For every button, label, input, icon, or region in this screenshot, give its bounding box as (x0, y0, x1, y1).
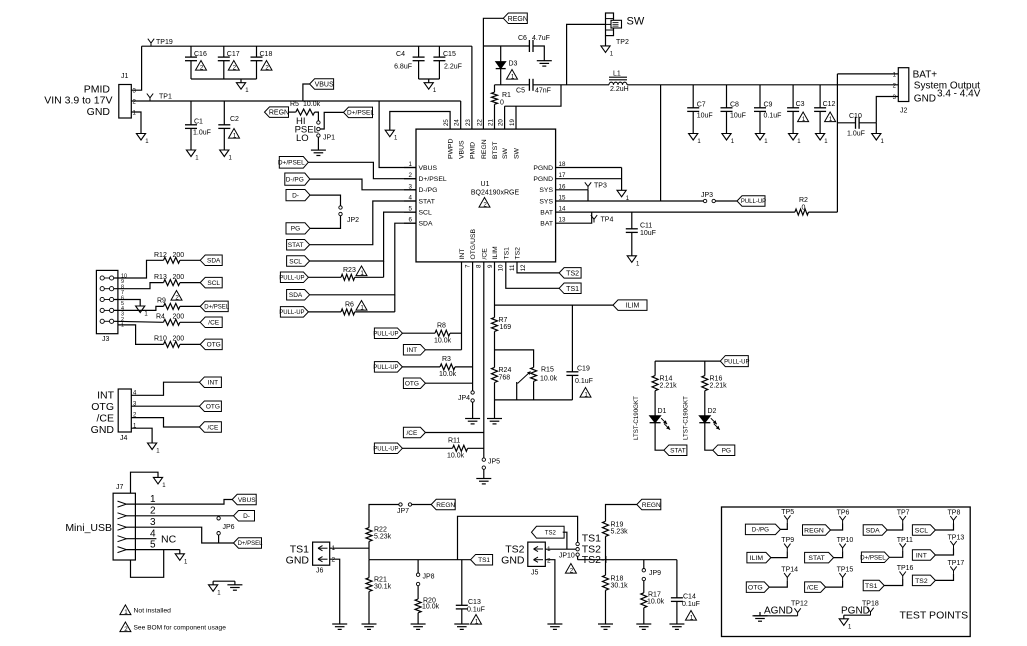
svg-text:200: 200 (173, 274, 185, 281)
capacitor C10 (837, 122, 855, 124)
svg-text:TP2: TP2 (616, 39, 629, 46)
svg-text:VBUS: VBUS (315, 82, 334, 89)
svg-text:GND: GND (286, 555, 310, 567)
wire JP3 to flag (715, 200, 737, 202)
svg-text:OTG/USB: OTG/USB (470, 228, 477, 259)
svg-text:TP8: TP8 (948, 510, 961, 517)
svg-text:10.0k: 10.0k (540, 376, 558, 383)
svg-text:3: 3 (150, 517, 156, 528)
wire R9 to D+/PSEL (180, 305, 200, 307)
svg-text:0.1uF: 0.1uF (467, 607, 485, 614)
wire J3 to R9 (114, 306, 164, 310)
capacitor C4 (418, 46, 420, 57)
wire J7 pin1 to VBUS (126, 500, 232, 505)
svg-text:TS1: TS1 (503, 247, 510, 260)
svg-text:5.23k: 5.23k (611, 529, 629, 536)
ground (209, 585, 218, 592)
svg-text:R6: R6 (345, 302, 354, 309)
svg-text:OTG: OTG (207, 342, 221, 349)
wire REGN net (483, 18, 503, 129)
wire R4 to /CE (180, 321, 200, 323)
note triangle 2 legend (120, 622, 131, 632)
ground (755, 134, 764, 141)
svg-text:/CE: /CE (406, 430, 418, 437)
resistor R1 (494, 85, 496, 92)
wire R11 to /CE net (468, 447, 484, 449)
svg-text:PMID: PMID (470, 142, 477, 159)
svg-text:LO: LO (296, 133, 309, 144)
net flag D+/PSEL at J7 (234, 538, 262, 549)
net flag PULL-UP R23 (280, 272, 308, 283)
svg-text:R2: R2 (799, 197, 808, 204)
svg-text:C12: C12 (823, 101, 836, 108)
net flag TS2 (559, 268, 581, 279)
svg-text:R21: R21 (374, 577, 387, 584)
PGND test point TP18 (839, 619, 848, 626)
net flag /CE to TP15 (805, 582, 826, 593)
svg-text:D1: D1 (658, 408, 667, 415)
svg-text:47nF: 47nF (535, 88, 551, 95)
svg-text:J5: J5 (531, 570, 539, 577)
svg-text:INT: INT (97, 390, 115, 402)
LED D2 (699, 416, 710, 423)
test point TP3 (587, 187, 589, 190)
svg-text:C19: C19 (577, 366, 590, 373)
svg-text:R24: R24 (499, 367, 512, 374)
net flag /CE at J3 (200, 317, 222, 328)
svg-text:TS1: TS1 (566, 286, 579, 293)
net flag OTG at J3 (200, 339, 222, 350)
svg-text:TS2: TS2 (515, 247, 522, 260)
svg-text:1: 1 (121, 323, 124, 329)
svg-text:1: 1 (360, 304, 364, 311)
svg-text:C7: C7 (697, 102, 706, 109)
wire pin20 stub (504, 106, 506, 129)
svg-text:25: 25 (443, 119, 450, 126)
svg-text:OTG: OTG (748, 585, 763, 592)
svg-text:1: 1 (150, 494, 156, 505)
svg-text:INT: INT (407, 347, 418, 354)
resistor R11 (453, 445, 468, 451)
wire pin16 SYS (556, 189, 588, 191)
capacitor C6 (528, 40, 530, 52)
capacitor C11 (631, 212, 633, 229)
note triangle 1 at C14 (686, 611, 697, 621)
wire J1 pin3 to PMID rail (131, 46, 141, 90)
svg-text:REGN: REGN (436, 502, 455, 509)
svg-text:C2: C2 (230, 116, 239, 123)
resistor R23 (341, 274, 355, 280)
svg-text:OTG: OTG (405, 381, 419, 388)
net flag TS2 boxed (532, 526, 565, 538)
net flag VBUS at J7 (232, 494, 256, 505)
svg-text:3.4 - 4.4V: 3.4 - 4.4V (937, 89, 981, 100)
net flag D- (286, 190, 310, 201)
wire PMID top rail (142, 45, 472, 47)
wire pin13 (556, 212, 592, 223)
svg-text:22: 22 (476, 119, 483, 126)
wire SDA to pin6 (310, 223, 416, 295)
svg-text:D-/PG: D-/PG (419, 187, 438, 194)
svg-text:10uF: 10uF (697, 113, 713, 120)
svg-text:D+/PSEL: D+/PSEL (204, 305, 230, 311)
net flag REGN at R19 (637, 499, 661, 510)
svg-text:768: 768 (499, 375, 511, 382)
svg-text:R17: R17 (648, 592, 661, 599)
wire pin8 OTG/USB (472, 262, 474, 391)
net flag SDA (287, 290, 310, 301)
wire C16-C18 bottom (191, 78, 257, 80)
svg-text:TP16: TP16 (897, 565, 914, 572)
wire ILIM branch (495, 304, 614, 306)
svg-text:BAT: BAT (540, 210, 553, 217)
wire SW rail (561, 84, 609, 86)
svg-text:JP1: JP1 (323, 135, 335, 142)
svg-text:REGN: REGN (804, 527, 824, 534)
wire pin7 INT (461, 262, 463, 350)
svg-text:VBUS: VBUS (458, 140, 465, 159)
note triangle 1 at C13 (471, 615, 482, 625)
svg-text:TP15: TP15 (837, 567, 854, 574)
wire PGND to gnd (621, 168, 623, 191)
net flag REGN top (503, 13, 527, 23)
test point TP1 (149, 98, 151, 101)
svg-text:R11: R11 (448, 438, 460, 445)
svg-text:19: 19 (509, 119, 516, 126)
resistor R18 (605, 560, 607, 576)
wire pin12 TS2 (517, 262, 559, 273)
wire J5 pin1 to JP10 (545, 548, 576, 550)
svg-text:C3: C3 (796, 101, 805, 108)
jumper JP1 (317, 121, 320, 124)
wire R19 to rail (605, 536, 607, 559)
svg-text:2: 2 (175, 294, 179, 301)
svg-text:R22: R22 (374, 527, 387, 534)
svg-text:OTG: OTG (91, 401, 114, 413)
potentiometer R15 (531, 367, 537, 381)
svg-text:C5: C5 (516, 88, 525, 95)
svg-text:D2: D2 (708, 408, 717, 415)
ground (601, 46, 610, 53)
wire J4 pin2 to /CE (131, 418, 199, 427)
svg-text:GND: GND (91, 424, 115, 436)
resistor R17 (643, 581, 645, 593)
wire R20 gnd (417, 613, 419, 624)
ground (236, 83, 245, 90)
svg-text:D-: D- (292, 192, 299, 199)
ground (598, 623, 613, 625)
note triangle 2 at R9 (171, 291, 182, 301)
resistor R3 (440, 364, 455, 370)
wire J7 shield gnd (131, 472, 159, 493)
wire R6 to SDA net (355, 311, 395, 313)
svg-text:24: 24 (454, 119, 461, 126)
net flag STAT at D1 (664, 445, 687, 456)
svg-text:30.1k: 30.1k (611, 583, 629, 590)
svg-text:VBUS: VBUS (238, 497, 256, 504)
net flag D+/PSEL at J3 (200, 301, 228, 312)
resistor R20 (417, 586, 419, 599)
svg-text:10.0k: 10.0k (439, 371, 457, 378)
wire R13 to SCL (180, 282, 200, 284)
note triangle 1 at R23 (356, 266, 367, 276)
wire pin25 to gnd (390, 112, 450, 131)
note triangle 1 at C12 (825, 112, 836, 122)
wire R17 gnd (643, 608, 645, 624)
wire D1 branch (654, 361, 656, 376)
svg-text:D3: D3 (509, 61, 518, 68)
ground (617, 190, 626, 197)
resistor R8 (435, 330, 450, 336)
wire R3 to OTG net (455, 366, 473, 368)
wire J2 pin3 (876, 97, 898, 123)
wire J3 to R13 (114, 283, 164, 289)
svg-text:GND: GND (87, 106, 111, 118)
wire LED rail (655, 360, 720, 362)
connector J7 Mini_USB (113, 493, 135, 560)
connector TP2 SW header (606, 13, 614, 36)
jumper JP7 (399, 503, 402, 506)
net flag OTG at J4 (199, 401, 221, 412)
svg-text:R18: R18 (611, 576, 624, 583)
svg-text:0.1uF: 0.1uF (682, 601, 700, 608)
svg-text:VIN 3.9 to 17V: VIN 3.9 to 17V (44, 95, 112, 107)
svg-text:TS1: TS1 (478, 557, 490, 564)
svg-text:TP5: TP5 (781, 509, 794, 516)
svg-text:23: 23 (465, 119, 472, 126)
svg-text:/CE: /CE (207, 424, 219, 431)
resistor R10 (164, 341, 180, 347)
svg-text:C14: C14 (683, 594, 696, 601)
wire JP1 to ground (317, 137, 319, 150)
svg-text:R7: R7 (499, 317, 508, 324)
svg-text:PG: PG (291, 226, 300, 233)
connector J1 (119, 85, 132, 119)
svg-text:LTST-C190GKT: LTST-C190GKT (633, 396, 640, 440)
connector J6 (313, 542, 330, 565)
svg-text:6.8uF: 6.8uF (394, 64, 412, 71)
svg-text:/CE: /CE (481, 248, 488, 260)
resistor R24 (492, 367, 498, 382)
svg-text:R14: R14 (660, 376, 673, 383)
wire TP3 junction (587, 190, 589, 201)
jumper JP5 (482, 458, 485, 461)
svg-text:Not installed: Not installed (134, 608, 172, 615)
svg-text:TS2: TS2 (566, 270, 579, 277)
net flag PULL-UP at JP3 (737, 196, 765, 207)
wire gnd stub (240, 79, 242, 83)
svg-text:R4: R4 (156, 314, 165, 321)
wire output rail to SYS (660, 85, 662, 201)
svg-text:INT: INT (916, 552, 927, 559)
capacitor C8 (726, 85, 728, 108)
wire C10 gnd stub (875, 123, 877, 134)
svg-text:R23: R23 (343, 267, 356, 274)
net flag TS1 to TP16 (863, 580, 884, 591)
svg-text:1: 1 (802, 116, 806, 123)
svg-text:5: 5 (150, 539, 156, 550)
wire J3 pin1 to R10 (118, 325, 164, 345)
test points box (722, 507, 971, 637)
ground (411, 623, 426, 625)
wire pin1 VBUS drop (379, 101, 416, 168)
jumper JP3 (703, 199, 706, 202)
wire D2 to PG (705, 423, 713, 451)
net flag PG (286, 223, 310, 234)
svg-text:1: 1 (511, 73, 515, 80)
wire D3 to C5 node (500, 69, 502, 85)
svg-text:D-: D- (243, 513, 250, 520)
wire J2 pin1 (837, 73, 898, 75)
wire /CE flag (425, 432, 483, 434)
resistor R16 (702, 376, 708, 391)
net flag PULL-UP R8 (374, 328, 402, 339)
svg-text:R3: R3 (442, 356, 451, 363)
net flag VBUS (310, 79, 334, 90)
svg-text:OTG: OTG (206, 404, 220, 411)
net flag INT at J4 (199, 377, 221, 388)
svg-text:STAT: STAT (288, 242, 304, 249)
net flag D+/PSEL (279, 157, 308, 169)
svg-text:2: 2 (483, 201, 487, 208)
svg-text:0: 0 (500, 100, 504, 107)
ground tie AGND-PGND (213, 580, 235, 582)
wire J7 pin5 loop (131, 550, 164, 578)
svg-text:TP19: TP19 (156, 39, 173, 46)
wire J3 row3 gnd (114, 300, 141, 307)
wire TS2-I rail (577, 556, 579, 559)
wire pin18 (556, 167, 622, 169)
net flag STAT (287, 239, 310, 250)
wire TS2 flag to pin1 (563, 532, 567, 549)
svg-text:2.2uF: 2.2uF (444, 64, 462, 71)
svg-text:2: 2 (150, 506, 156, 517)
svg-text:2.21k: 2.21k (660, 383, 678, 390)
ground (220, 150, 229, 157)
svg-text:R10: R10 (154, 336, 167, 343)
wire R5 to JP1 (315, 112, 319, 121)
svg-text:1: 1 (690, 614, 694, 621)
note triangle 2 at C16 (196, 61, 207, 71)
resistor R14 (652, 376, 658, 391)
svg-text:C1: C1 (194, 119, 203, 126)
wire TP2 to gnd (605, 36, 607, 46)
ground (175, 554, 184, 561)
ground (722, 134, 731, 141)
wire STAT to pin4 (310, 201, 416, 245)
svg-text:SYS: SYS (539, 187, 553, 194)
wire JP4 to gnd (472, 402, 474, 418)
wire R12 to SDA (180, 259, 200, 261)
capacitor C19 (571, 305, 573, 372)
svg-text:D+/PSEL: D+/PSEL (347, 110, 374, 117)
svg-text:10uF: 10uF (730, 113, 746, 120)
svg-text:JP2: JP2 (347, 217, 359, 224)
svg-text:R12: R12 (154, 252, 167, 259)
svg-text:C17: C17 (227, 51, 240, 58)
resistor R22 (366, 528, 372, 542)
wire R10 to OTG (180, 343, 200, 345)
wire R21 gnd (368, 592, 370, 625)
net flag INT to TP13 (912, 550, 935, 561)
svg-text:BAT: BAT (540, 221, 553, 228)
wire R14 to D1 (654, 391, 656, 416)
wire gnd stub (428, 79, 430, 83)
svg-text:TP10: TP10 (837, 537, 854, 544)
net flag INT (403, 345, 425, 356)
svg-text:200: 200 (173, 314, 185, 321)
svg-text:2: 2 (547, 558, 551, 565)
svg-text:7: 7 (465, 264, 472, 268)
wire pin14 BAT line (556, 211, 795, 213)
U1 left pins (404, 167, 416, 169)
wire SW pins node (505, 85, 561, 106)
svg-text:TP11: TP11 (897, 537, 913, 544)
svg-text:C13: C13 (468, 599, 481, 606)
net flag SDA to TP7 (863, 525, 887, 536)
svg-text:10.0k: 10.0k (447, 453, 465, 460)
svg-text:30.1k: 30.1k (374, 584, 392, 591)
svg-text:1: 1 (475, 618, 479, 625)
ground (669, 623, 684, 625)
svg-text:TP13: TP13 (948, 535, 965, 542)
svg-text:SDA: SDA (207, 258, 221, 265)
svg-text:4.7uF: 4.7uF (532, 35, 550, 42)
wire J7 pin3 (126, 527, 233, 543)
svg-text:11: 11 (509, 264, 516, 271)
net flag TS1 (559, 283, 581, 294)
svg-text:TS1: TS1 (865, 583, 878, 590)
net flag SDA at J3 (200, 255, 222, 265)
wire D-/PG to pin3 (310, 179, 416, 190)
svg-text:R19: R19 (611, 522, 624, 529)
svg-text:4: 4 (150, 528, 156, 539)
wire R18 gnd (605, 590, 607, 624)
wire D- to JP2 (310, 195, 341, 206)
wire bottom rail R24-C19 (495, 399, 573, 401)
svg-text:PGND: PGND (533, 165, 553, 172)
test point TP19 (150, 43, 152, 46)
svg-text:D+/PSEL: D+/PSEL (238, 541, 264, 547)
net flag PULL-UP R6 (280, 307, 308, 318)
svg-text:JP10: JP10 (559, 553, 575, 560)
wire R8 to INT net (450, 332, 462, 334)
svg-text:R8: R8 (437, 323, 446, 330)
wire D+/PSEL to pin2 (308, 162, 416, 178)
ground (816, 134, 825, 141)
net flag /CE at J4 (199, 422, 221, 433)
svg-text:10.0k: 10.0k (303, 101, 321, 108)
capacitor C17 (223, 46, 225, 57)
net flag TS1 at rail (471, 554, 493, 565)
svg-text:10.0k: 10.0k (422, 604, 440, 611)
wire D1 to STAT (655, 423, 664, 451)
ground (227, 584, 242, 586)
svg-text:2: 2 (124, 626, 128, 633)
net flag D- at J7 (234, 511, 255, 522)
svg-text:D+/PSEL: D+/PSEL (278, 160, 305, 167)
wire REGN to R19 (606, 505, 637, 522)
wire C5 right (533, 84, 561, 86)
svg-text:NC: NC (161, 534, 177, 546)
svg-text:C16: C16 (194, 51, 207, 58)
wire pin24 to input rail (460, 101, 462, 129)
ground (465, 418, 480, 420)
svg-text:J2: J2 (900, 108, 908, 115)
net flag REGN at JP7 (431, 499, 455, 510)
svg-text:PGND: PGND (533, 176, 553, 183)
wire C10 right (859, 122, 876, 124)
